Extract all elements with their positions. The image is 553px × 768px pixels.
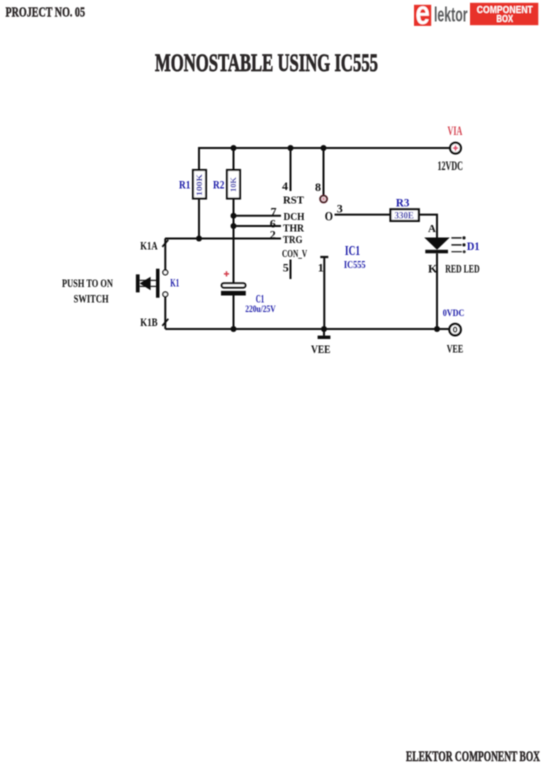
pin number 7 (271, 205, 277, 219)
wire LED to bottom rail (436, 253, 438, 329)
wire C1 bottom (233, 295, 235, 329)
header project number (6, 5, 86, 20)
terminal VIA1 12VDC (450, 143, 461, 154)
label K1B (140, 315, 157, 329)
wire pin 8 stub (323, 148, 325, 195)
svg-text:5: 5 (283, 261, 289, 275)
capacitor C1 (221, 283, 246, 295)
svg-text:TRG: TRG (283, 235, 303, 246)
svg-text:4: 4 (282, 179, 288, 193)
label RED LED (445, 261, 480, 275)
wire R1 bottom (198, 199, 200, 239)
svg-text:RST: RST (283, 195, 304, 206)
wire R2 top (233, 148, 235, 170)
wire pin 6 stub (234, 225, 282, 227)
resistor R3 (391, 209, 419, 221)
terminal net label VEE (447, 342, 464, 356)
junction dot LED bottom (434, 326, 440, 332)
label 12VDC (438, 159, 464, 173)
label IC1 (345, 244, 360, 259)
pin name CON_V (282, 249, 307, 260)
svg-text:330E: 330E (395, 210, 414, 220)
svg-text:IC555: IC555 (344, 260, 366, 271)
svg-text:THR: THR (283, 224, 304, 235)
svg-text:R3: R3 (396, 196, 410, 210)
label K1A (140, 238, 158, 252)
wire top rail (199, 148, 450, 170)
resistor R1 (193, 170, 206, 199)
junction dot R2 top rail (231, 145, 237, 151)
wire pin 5 stub (290, 260, 292, 280)
label R1 (179, 178, 190, 192)
label PUSH TO ON (62, 276, 113, 290)
label 220u/25V (245, 304, 276, 314)
switch K1 lower wire (164, 297, 166, 329)
switch K1 upper wire (164, 239, 166, 271)
pin number 2 (270, 227, 276, 241)
svg-text:10K: 10K (229, 176, 238, 192)
label 0VDC (443, 309, 465, 319)
label K1 (170, 275, 179, 289)
svg-text:1: 1 (318, 261, 324, 275)
LED anode label A (428, 223, 436, 235)
junction dot pin6 (231, 223, 237, 229)
pin number 3 (337, 202, 343, 216)
resistor R2 (227, 170, 240, 199)
svg-text:IC1: IC1 (345, 244, 360, 259)
svg-text:PUSH TO ON: PUSH TO ON (62, 276, 113, 290)
label R3 (396, 196, 410, 210)
pin name DCH (284, 212, 305, 223)
svg-text:K1: K1 (170, 275, 179, 289)
K1B tick (162, 319, 168, 326)
svg-text:CON_V: CON_V (282, 249, 307, 260)
svg-text:R2: R2 (213, 178, 224, 192)
footer (406, 749, 540, 765)
pin number 4 (282, 179, 288, 193)
pin number 5 (283, 261, 289, 275)
junction dot pin4 rail (288, 145, 294, 151)
LED D1 (425, 238, 448, 253)
ground junction dot (321, 326, 327, 332)
ground symbol (318, 329, 331, 337)
svg-text:ELEKTOR COMPONENT BOX: ELEKTOR COMPONENT BOX (406, 749, 540, 765)
svg-text:K1A: K1A (140, 238, 158, 252)
node label VIA1 (448, 124, 463, 138)
svg-text:VEE: VEE (447, 342, 464, 356)
svg-text:A: A (428, 223, 436, 235)
junction dot pin8 rail (321, 145, 327, 151)
component box badge (470, 3, 538, 25)
svg-text:SWITCH: SWITCH (74, 292, 109, 306)
label R2 (213, 178, 224, 192)
title (155, 50, 378, 77)
pin 8 VCC marker (320, 196, 327, 203)
label SWITCH (74, 292, 109, 306)
label D1 (467, 239, 480, 253)
output label O (325, 209, 333, 224)
K1A tick (162, 240, 168, 247)
svg-text:0VDC: 0VDC (443, 309, 465, 319)
wire output to R3 (335, 214, 390, 216)
LED cathode label K (428, 261, 438, 275)
wire R1 top (198, 148, 200, 170)
label C1 (256, 292, 265, 306)
svg-text:MONOSTABLE USING IC555: MONOSTABLE USING IC555 (155, 50, 378, 77)
junction dot C1 bottom (231, 326, 237, 332)
wire pin 1 stub to rail (323, 257, 325, 329)
pin name TRG (283, 235, 303, 246)
wire bottom rail (165, 328, 448, 330)
pin number 8 (315, 180, 321, 194)
wire pin 4 stub (290, 148, 292, 191)
svg-text:lektor: lektor (434, 5, 468, 27)
svg-text:PROJECT NO. 05: PROJECT NO. 05 (6, 5, 86, 20)
svg-text:3: 3 (337, 202, 343, 216)
svg-text:100K: 100K (195, 173, 204, 196)
svg-text:R1: R1 (179, 178, 190, 192)
svg-text:D1: D1 (467, 239, 480, 253)
wire R2 bottom to C1 (233, 199, 235, 284)
terminal 0VDC (449, 324, 460, 335)
switch contact upper (163, 270, 168, 275)
elektor logo (414, 0, 468, 32)
pushbutton actuator K1 (136, 269, 160, 298)
svg-text:e: e (416, 0, 430, 32)
svg-text:220u/25V: 220u/25V (245, 304, 276, 314)
ground net label VEE (311, 342, 331, 356)
svg-text:12VDC: 12VDC (438, 159, 464, 173)
label IC555 (344, 260, 366, 271)
svg-text:RED LED: RED LED (445, 261, 480, 275)
svg-text:K1B: K1B (140, 315, 157, 329)
pin name RST (283, 195, 304, 206)
svg-text:8: 8 (315, 180, 321, 194)
wire pin 7 stub (234, 215, 282, 217)
svg-text:O: O (325, 209, 333, 224)
LED emission arrows (451, 236, 465, 253)
wire R3 to LED corner (419, 215, 438, 238)
svg-text:BOX: BOX (497, 14, 514, 25)
svg-text:VIA: VIA (448, 124, 463, 138)
wire TRG run from K1A to pin 2 (165, 238, 281, 240)
pin name THR (283, 224, 304, 235)
C1 plus sign (224, 271, 229, 276)
pin number 6 (270, 217, 276, 231)
switch contact lower (163, 292, 168, 297)
svg-text:VEE: VEE (311, 342, 331, 356)
pin number 1 (318, 261, 324, 275)
junction dot pin7 (231, 213, 237, 219)
pin 1 top bar (320, 256, 328, 258)
junction dot R1 bottom (196, 236, 202, 242)
svg-text:DCH: DCH (284, 212, 305, 223)
svg-text:2: 2 (270, 227, 276, 241)
